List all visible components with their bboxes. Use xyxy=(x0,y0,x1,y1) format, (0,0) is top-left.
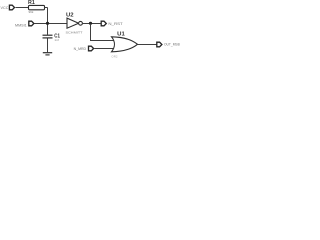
inverter U2 output bubble xyxy=(79,21,83,25)
port N_RST xyxy=(101,21,106,26)
wire N_MRD to U1 bottom input xyxy=(94,48,116,50)
capacitor C1 top plate xyxy=(43,34,53,36)
svg-text:MMSI1: MMSI1 xyxy=(15,23,27,28)
svg-text:U1: U1 xyxy=(117,31,125,37)
svg-text:OR2: OR2 xyxy=(112,54,119,58)
port N_MRD xyxy=(89,46,94,51)
ground xyxy=(43,52,52,54)
port MMSI1 xyxy=(29,21,34,26)
resistor R1 xyxy=(29,5,45,9)
port OUT_MSB xyxy=(157,42,162,47)
svg-text:N_RST: N_RST xyxy=(108,21,123,26)
svg-text:OUT_MSB: OUT_MSB xyxy=(164,42,180,47)
svg-text:VCC: VCC xyxy=(1,5,9,10)
port VCC xyxy=(9,5,14,10)
capacitor C1 bottom plate xyxy=(43,37,53,39)
svg-text:U2: U2 xyxy=(66,12,74,18)
wire C1 bottom to ground xyxy=(47,38,49,52)
wire vertical corner down to capacitor xyxy=(47,8,49,35)
svg-text:1nf: 1nf xyxy=(54,38,58,42)
junction at C1 top node xyxy=(46,22,49,25)
svg-text:N_MRD: N_MRD xyxy=(74,46,87,51)
wire U2 output to N_RST port xyxy=(82,23,101,25)
wire from junction down to U1 top input xyxy=(91,24,117,41)
junction on U2 output xyxy=(89,22,92,25)
op-amp U2 inverter triangle xyxy=(67,18,79,28)
wire U1 output xyxy=(138,44,157,46)
svg-text:99k: 99k xyxy=(29,10,34,14)
wire VCC to R1 xyxy=(16,7,29,9)
OR gate U1 xyxy=(112,37,138,52)
svg-text:R1: R1 xyxy=(28,0,35,6)
wire MMSI1 to U2 input xyxy=(35,23,68,25)
wire R1 to corner xyxy=(45,7,48,9)
svg-text:SCHMITT: SCHMITT xyxy=(66,31,83,35)
